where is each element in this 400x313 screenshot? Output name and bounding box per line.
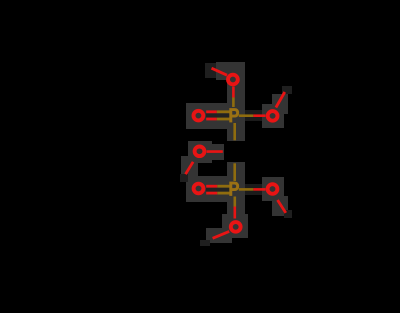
svg-text:P: P [229, 105, 240, 127]
svg-text:P: P [229, 178, 240, 200]
